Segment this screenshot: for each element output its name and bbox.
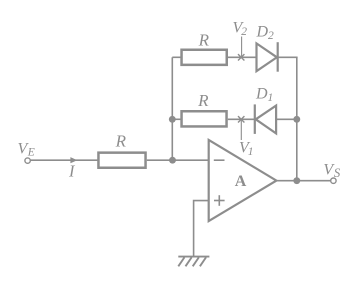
svg-text:E: E xyxy=(27,146,35,158)
wire R3 to D2 xyxy=(228,56,256,58)
svg-text:R: R xyxy=(115,132,127,151)
wire riser to R3 xyxy=(172,56,181,58)
svg-text:1: 1 xyxy=(248,146,254,158)
svg-text:D: D xyxy=(256,23,269,40)
op-amp non-inverting pin plus xyxy=(214,195,225,206)
resistor R2 (lower feedback) xyxy=(182,111,227,126)
node V2 cross marker xyxy=(238,54,244,60)
label V2 xyxy=(233,19,248,37)
wire D2 to right riser xyxy=(278,56,298,58)
wire R2 to D1 xyxy=(228,118,255,120)
svg-text:R: R xyxy=(198,31,210,50)
node V1 cross marker xyxy=(238,116,244,122)
label R (R3 value) xyxy=(198,31,210,50)
leader line V2 xyxy=(241,37,243,57)
current arrow I xyxy=(70,157,77,163)
terminal VE xyxy=(25,158,30,163)
svg-text:R: R xyxy=(197,91,209,110)
op-amp U1 triangle xyxy=(209,140,277,221)
label A (op-amp gain) xyxy=(235,173,247,190)
label R (R1 value) xyxy=(115,132,127,151)
ground xyxy=(178,257,209,267)
wire op-amp output to VS xyxy=(276,180,330,182)
wire riser to R2 xyxy=(172,118,181,120)
label I xyxy=(68,162,76,181)
wire plus input to ground xyxy=(194,201,210,256)
label D1 xyxy=(255,86,273,104)
diode D2 xyxy=(257,42,278,71)
resistor R3 (top feedback) xyxy=(182,50,227,65)
junction output node xyxy=(293,177,300,184)
op-amp inverting pin minus xyxy=(214,159,225,161)
junction right riser to D1 branch xyxy=(293,116,300,123)
svg-text:D: D xyxy=(255,86,268,103)
wire VE to R1 xyxy=(31,159,98,161)
svg-text:2: 2 xyxy=(241,26,247,38)
svg-text:S: S xyxy=(334,165,341,180)
wire right riser xyxy=(296,57,298,180)
leader line V1 xyxy=(240,121,242,141)
terminal VS xyxy=(331,178,336,183)
label R (R2 value) xyxy=(197,91,209,110)
diode D1 xyxy=(255,104,276,133)
label D2 xyxy=(256,23,275,41)
junction riser to lower branch xyxy=(169,116,176,123)
svg-text:2: 2 xyxy=(268,30,274,42)
svg-text:I: I xyxy=(68,162,76,181)
svg-text:1: 1 xyxy=(268,92,274,104)
label V1 xyxy=(239,140,253,158)
label VS xyxy=(323,162,340,181)
wire left feedback riser xyxy=(171,57,173,160)
label VE xyxy=(18,141,35,159)
junction summing node on main wire xyxy=(169,157,176,164)
wire R1 to op-amp inverting input xyxy=(147,159,210,161)
wire D1 to right riser xyxy=(276,118,297,120)
svg-text:A: A xyxy=(235,173,247,190)
resistor R1 xyxy=(98,153,145,168)
